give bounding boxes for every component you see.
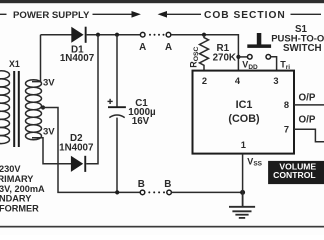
bottom rule: [0, 226, 324, 228]
center tap dot: [41, 105, 45, 109]
svg-text:B: B: [164, 179, 171, 190]
wire top rail to D1 anode: [41, 34, 72, 36]
transformer X1 secondary winding: [26, 80, 42, 140]
switch S1 left contact: [248, 55, 253, 60]
svg-text:NDARY: NDARY: [0, 194, 31, 204]
svg-text:O/P: O/P: [299, 93, 316, 104]
terminal B right: [167, 190, 172, 195]
svg-text:8: 8: [284, 100, 289, 110]
junction dot C1 on B rail: [115, 190, 119, 194]
terminal B left: [140, 190, 145, 195]
svg-text:CONTROL: CONTROL: [273, 170, 316, 180]
dotted link B-B: [148, 191, 165, 193]
junction dot VDD node: [236, 55, 240, 59]
wire secondary bottom lead to D2 anode: [32, 138, 72, 164]
transformer X1 core: [14, 71, 19, 147]
diode D1: [71, 27, 86, 43]
label + (C1 polarity): [108, 99, 113, 104]
wire D2 cathode riser to top rail: [86, 35, 98, 164]
svg-text:16V: 16V: [132, 116, 150, 127]
ground: [229, 192, 255, 218]
svg-text:POWER SUPPLY: POWER SUPPLY: [13, 10, 90, 21]
capacitor C1 positive lead: [116, 35, 118, 107]
junction dot C1 on top rail: [115, 33, 119, 37]
terminal A left: [140, 32, 145, 37]
svg-text:270K: 270K: [213, 53, 236, 64]
wire node A to VDD corner and pin 4: [171, 35, 239, 71]
volume control label box: [268, 161, 324, 184]
wire pin 1 VSS to ground node: [242, 154, 244, 193]
IC1 (COB) box: [193, 71, 295, 154]
wire center tap to B rail: [42, 108, 141, 193]
caption text transformer: [0, 164, 45, 213]
svg-text:1: 1: [241, 140, 246, 150]
svg-text:B: B: [138, 179, 145, 190]
svg-text:SWITCH: SWITCH: [283, 43, 322, 54]
switch S1 right contact: [266, 55, 271, 60]
switch S1 plunger: [247, 33, 271, 48]
wire B to ground node: [171, 191, 242, 193]
wire pin 7 output: [294, 129, 324, 141]
transformer X1 primary winding: [0, 71, 10, 144]
svg-text:1N4007: 1N4007: [59, 143, 94, 154]
svg-text:7: 7: [284, 125, 289, 135]
wire D1 cathode to node A: [87, 34, 141, 36]
section label COB SECTION: [158, 10, 321, 21]
capacitor C1 curved plate: [109, 115, 124, 118]
junction dot D2 riser on top rail: [96, 33, 100, 37]
wire VDD node to switch left contact: [238, 56, 247, 58]
svg-text:RIMARY: RIMARY: [0, 174, 33, 184]
svg-text:IC1: IC1: [236, 99, 253, 111]
svg-text:(COB): (COB): [228, 113, 260, 125]
section label POWER SUPPLY: [0, 10, 141, 21]
svg-text:3V: 3V: [43, 126, 55, 137]
svg-text:A: A: [139, 42, 146, 53]
svg-text:1N4007: 1N4007: [60, 53, 95, 64]
wire secondary top lead to top rail: [32, 35, 41, 82]
junction dot R1 top: [202, 33, 206, 37]
svg-text:A: A: [165, 42, 172, 53]
svg-text:230V: 230V: [0, 164, 21, 174]
svg-text:FORMER: FORMER: [0, 203, 39, 213]
junction dot ground node: [240, 190, 245, 195]
wire pin 8 output: [294, 104, 324, 106]
svg-text:X1: X1: [9, 59, 20, 69]
svg-text:2: 2: [202, 76, 207, 86]
svg-text:4: 4: [235, 76, 241, 86]
capacitor C1 negative lead: [116, 118, 118, 193]
terminal A right: [166, 32, 171, 37]
resistor R1: [200, 35, 209, 71]
svg-text:3: 3: [273, 76, 278, 86]
dotted link A-A: [149, 34, 165, 36]
svg-text:COB SECTION: COB SECTION: [204, 10, 286, 21]
svg-text:3V: 3V: [43, 78, 55, 89]
svg-text:O/P: O/P: [299, 114, 316, 125]
wire switch right contact to pin 3: [271, 57, 277, 71]
diode D2: [71, 156, 86, 172]
capacitor C1 top plate: [108, 106, 126, 108]
top border bar: [0, 0, 324, 3]
svg-text:3V, 200mA: 3V, 200mA: [0, 184, 45, 194]
